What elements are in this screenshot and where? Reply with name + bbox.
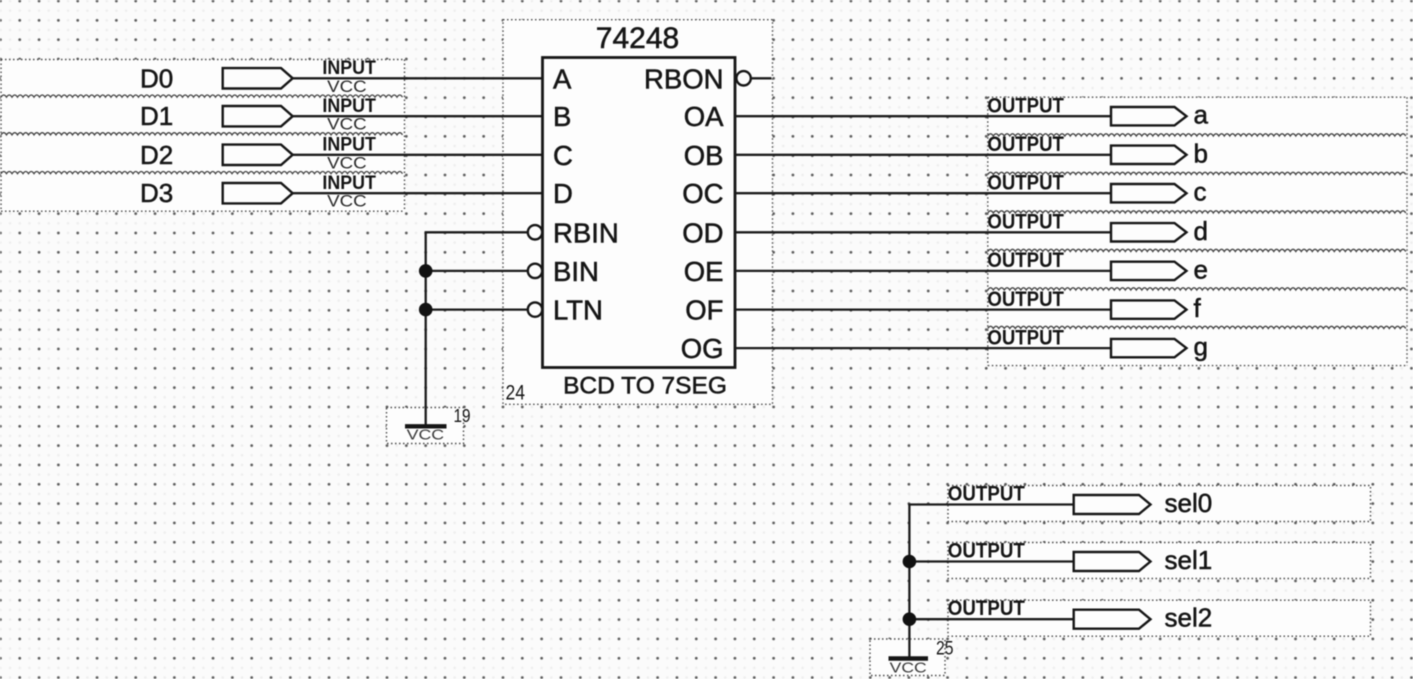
svg-text:INPUT: INPUT [322,173,376,194]
inversion bubble on RBON [736,71,750,85]
svg-text:f: f [1194,293,1202,323]
74248 BCD-to-7seg decoder U24 body [543,58,736,368]
svg-text:sel1: sel1 [1165,545,1213,575]
wire D3 to 74248 pin D [293,192,543,194]
junction on sel1 [903,555,917,569]
svg-text:sel2: sel2 [1165,603,1213,633]
svg-text:VCC: VCC [407,427,445,444]
svg-text:b: b [1194,138,1208,168]
svg-text:D2: D2 [140,140,173,170]
output pin f [987,288,1201,323]
svg-text:D3: D3 [140,178,173,208]
input pin D3 [140,173,376,211]
VCC power symbol 25 [870,639,945,676]
svg-text:OA: OA [684,101,724,132]
wire BIN [426,270,528,272]
wire 74248 OG to output g [735,347,1111,349]
svg-text:OG: OG [681,333,724,364]
svg-text:OE: OE [684,256,724,287]
svg-text:OUTPUT: OUTPUT [987,133,1064,156]
junction on LTN [419,303,433,317]
svg-text:e: e [1194,254,1208,284]
wire 74248 OB to output b [735,154,1111,156]
svg-text:g: g [1194,332,1208,362]
wire 74248 OC to output c [735,192,1111,194]
svg-text:d: d [1194,216,1208,246]
svg-text:OF: OF [685,295,723,326]
selection box border input pins [1,60,405,212]
wire D1 to 74248 pin B [293,115,543,117]
inversion bubble on BIN [528,264,542,278]
wire D2 to 74248 pin C [293,154,543,156]
svg-text:VCC: VCC [327,193,367,211]
svg-text:OUTPUT: OUTPUT [987,211,1064,234]
svg-text:VCC: VCC [327,78,367,96]
svg-text:a: a [1194,100,1209,130]
output pin b [987,133,1208,168]
wire RBIN [425,231,528,233]
svg-text:19: 19 [454,405,471,426]
svg-text:25: 25 [936,638,954,660]
output pin sel2 [948,597,1212,633]
svg-text:OUTPUT: OUTPUT [948,482,1025,505]
wire vertical VCC net to RBIN/BIN/LTN [425,232,427,426]
wire 74248 OD to output d [735,231,1111,233]
output pin a [987,94,1208,129]
wire to output sel1 [908,560,1073,562]
junction on BIN [419,264,433,278]
wire LTN [426,308,528,310]
VCC power symbol 19 [387,408,464,444]
svg-text:OC: OC [682,178,723,209]
junction on sel2 [903,612,917,626]
svg-text:D: D [553,178,573,209]
wire to output sel0 [908,503,1073,505]
svg-text:D1: D1 [140,101,173,131]
output pin c [987,171,1206,206]
svg-text:BCD TO 7SEG: BCD TO 7SEG [563,373,727,400]
svg-text:A: A [553,63,572,94]
selection box borders sel0 sel1 sel2 [948,486,1371,637]
svg-text:OUTPUT: OUTPUT [987,326,1064,349]
wire vertical VCC net to sel outputs [908,505,910,659]
inversion bubble on RBIN [528,225,542,239]
svg-text:B: B [553,101,571,132]
svg-text:BIN: BIN [553,256,599,287]
svg-text:INPUT: INPUT [322,96,376,117]
svg-text:OUTPUT: OUTPUT [948,597,1025,620]
svg-text:24: 24 [506,382,526,405]
wire stub RBON [751,77,772,79]
wire to output sel2 [908,618,1073,620]
output pin sel1 [948,539,1212,575]
svg-text:OB: OB [684,140,724,171]
svg-text:C: C [553,140,573,171]
selection box interior VCC symbol 19 [387,408,464,444]
wire 74248 OF to output f [735,308,1111,310]
selection box border outputs a-g [988,97,1407,365]
input pin D2 [140,134,376,172]
svg-text:INPUT: INPUT [322,58,376,79]
svg-text:74248: 74248 [596,22,679,55]
svg-text:VCC: VCC [327,154,367,172]
selection box interior output pins a-g [988,97,1407,365]
wire 74248 OA to output a [735,115,1111,117]
output pin sel0 [948,482,1212,518]
selection box interior output pins sel0-sel2 [948,486,1371,522]
svg-text:VCC: VCC [327,116,367,134]
inversion bubble on LTN [528,302,542,316]
svg-text:c: c [1194,177,1207,207]
output pin e [987,249,1208,284]
output pin g [987,326,1208,361]
input pin D0 [140,58,376,96]
selection box interior input pins D0-D3 [1,60,405,212]
svg-text:LTN: LTN [553,295,603,326]
selection box interior macrofunction 74248 [503,20,773,405]
svg-text:D0: D0 [140,63,173,93]
selection box border 74248 [503,20,773,405]
svg-text:RBIN: RBIN [553,217,619,248]
wire 74248 OE to output e [735,270,1111,272]
wire D0 to 74248 pin A [293,77,543,79]
svg-text:RBON: RBON [644,63,723,94]
output pin d [987,211,1208,246]
svg-text:VCC: VCC [890,659,927,676]
svg-text:OUTPUT: OUTPUT [987,94,1064,117]
svg-text:INPUT: INPUT [322,134,376,155]
svg-text:OUTPUT: OUTPUT [948,539,1025,562]
svg-text:OUTPUT: OUTPUT [987,288,1064,311]
svg-text:OUTPUT: OUTPUT [987,249,1064,272]
svg-text:OUTPUT: OUTPUT [987,171,1064,194]
selection box interior VCC symbol 25 [870,639,945,676]
svg-text:sel0: sel0 [1165,488,1213,518]
input pin D1 [140,96,376,134]
svg-text:OD: OD [682,217,723,248]
